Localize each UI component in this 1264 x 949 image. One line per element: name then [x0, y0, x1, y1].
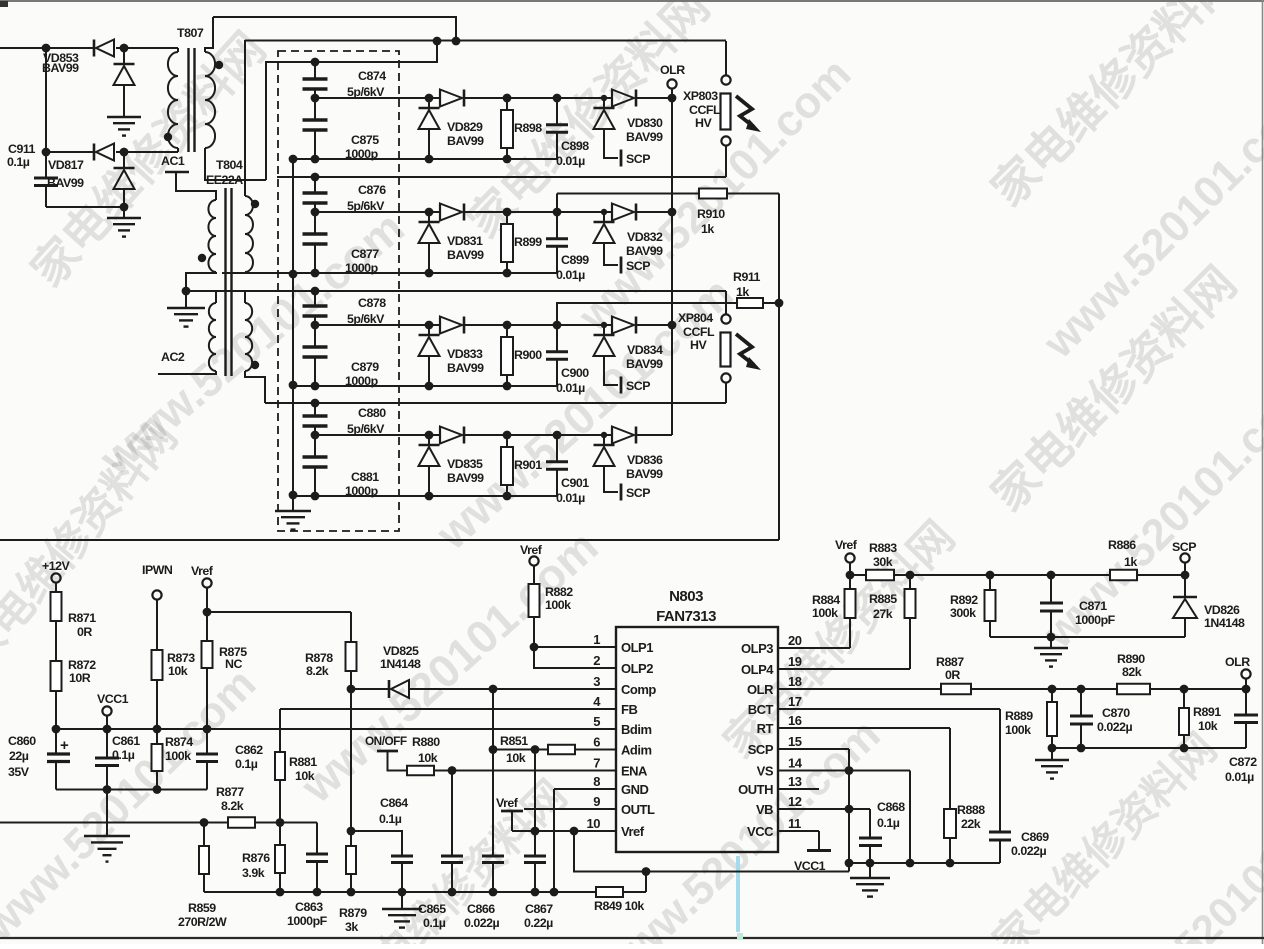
node Vref mid [496, 796, 523, 831]
svg-text:CCFL: CCFL [683, 325, 715, 339]
resistor R885 [905, 571, 916, 669]
node +12V [42, 559, 71, 583]
svg-text:27k: 27k [873, 607, 893, 621]
node SCP channel 3 [626, 379, 650, 393]
svg-text:VD829: VD829 [447, 120, 483, 134]
resistor R872 [51, 661, 62, 729]
svg-text:19: 19 [788, 654, 802, 669]
capacitor C900 [546, 321, 568, 386]
label XP803 CCFL HV [683, 89, 721, 130]
svg-text:C863: C863 [295, 900, 323, 914]
wire decouple rail [845, 859, 1000, 868]
svg-text:VCC1: VCC1 [794, 859, 826, 873]
label VD817 [47, 158, 84, 190]
label R892 [950, 593, 978, 620]
wire channel 3 bottom rail [293, 382, 557, 391]
wire SCP pin drop [778, 749, 853, 775]
svg-text:FAN7313: FAN7313 [656, 608, 716, 625]
diode VD825 [347, 680, 498, 698]
label IC left pins [587, 632, 657, 839]
svg-text:12: 12 [788, 794, 802, 809]
wire section divider [0, 539, 779, 541]
svg-text:BAV99: BAV99 [626, 357, 663, 371]
wire T807 secondary top feed [213, 17, 456, 41]
svg-text:OLP4: OLP4 [741, 662, 774, 677]
svg-text:VD834: VD834 [627, 343, 663, 357]
node input junction [42, 44, 51, 53]
label C879 [345, 360, 379, 388]
connector XP803 [721, 41, 762, 177]
label R885 [869, 592, 897, 621]
wire sense cap ground bus [289, 155, 298, 511]
label C860 [8, 734, 36, 779]
label C865 [418, 902, 446, 930]
svg-text:C867: C867 [525, 902, 553, 916]
svg-text:GND: GND [621, 782, 649, 797]
svg-text:+12V: +12V [42, 559, 71, 573]
ground OLR cluster [1035, 748, 1069, 779]
svg-text:VS: VS [757, 764, 774, 779]
svg-text:C911: C911 [8, 142, 36, 156]
node OLR top [660, 63, 685, 89]
resistor R882 [529, 566, 540, 652]
svg-text:C881: C881 [351, 470, 379, 484]
svg-text:C871: C871 [1079, 599, 1107, 613]
svg-text:8.2k: 8.2k [221, 799, 244, 813]
transformer T804 [158, 40, 265, 403]
capacitor C881 [303, 435, 328, 496]
svg-text:10k: 10k [506, 751, 526, 765]
label R875 [219, 645, 247, 671]
label R880 [412, 735, 440, 765]
wire channel 1 bottom rail [293, 155, 557, 164]
capacitor C898 [546, 94, 568, 159]
diode VD826 [1173, 575, 1197, 637]
wire channel 4 bottom rail [293, 492, 557, 501]
svg-text:0.022µ: 0.022µ [1097, 720, 1133, 734]
capacitor C860 [47, 725, 70, 790]
diode VD830 [594, 90, 637, 167]
wire OUTL stub [524, 808, 616, 810]
resistor R898 [501, 94, 513, 159]
svg-text:6: 6 [593, 735, 600, 750]
svg-text:1N4148: 1N4148 [380, 657, 421, 671]
resistor R901 [501, 431, 513, 496]
wire C874 feed [266, 41, 437, 180]
svg-text:0.01µ: 0.01µ [556, 154, 585, 168]
svg-text:C866: C866 [467, 902, 495, 916]
label R849 [594, 899, 644, 913]
resistor R883 [850, 570, 1110, 581]
svg-text:R900: R900 [514, 348, 542, 362]
label VD830 [626, 116, 663, 144]
label C878 [347, 296, 386, 326]
resistor R873 [152, 650, 163, 733]
svg-text:7: 7 [593, 756, 600, 771]
label C863 [287, 900, 328, 928]
label R898 [514, 121, 542, 135]
capacitor C875 [303, 98, 328, 159]
svg-text:0R: 0R [945, 668, 960, 682]
label C880 [347, 406, 386, 436]
svg-text:VD833: VD833 [447, 347, 483, 361]
wire left column [45, 48, 47, 178]
svg-text:5p/6kV: 5p/6kV [347, 312, 385, 326]
svg-text:C865: C865 [418, 902, 446, 916]
svg-text:OLP3: OLP3 [741, 641, 773, 656]
label C872 [1225, 755, 1257, 784]
svg-text:BCT: BCT [748, 702, 774, 717]
wire OLR sense line [636, 89, 676, 436]
label R874 [165, 735, 193, 763]
label R878 [305, 651, 333, 678]
svg-text:3k: 3k [345, 920, 358, 934]
resistor R884 [845, 575, 856, 648]
svg-text:300k: 300k [950, 606, 976, 620]
label N803 FAN7313 [656, 588, 716, 625]
ground C868 [850, 863, 890, 897]
diode VD853 [94, 40, 178, 118]
label R899 [514, 235, 542, 249]
label VD825 1N4148 [380, 644, 421, 671]
wire GND pin drop [550, 789, 616, 896]
capacitor C872 [1234, 689, 1258, 748]
resistor R880 [407, 766, 456, 776]
svg-text:10k: 10k [295, 769, 315, 783]
resistor R887 [778, 684, 1117, 695]
svg-text:SCP: SCP [626, 486, 650, 500]
label R886 [1108, 538, 1137, 569]
label R900 [514, 348, 542, 362]
resistor R849 [596, 887, 623, 897]
svg-text:18: 18 [788, 674, 802, 689]
wire VS rail [778, 771, 914, 868]
wire bottom ground rail [204, 891, 646, 893]
dashed boundary capacitor bank [278, 51, 399, 531]
wire channel 2 output rail [311, 208, 672, 217]
svg-text:BAV99: BAV99 [626, 467, 663, 481]
node SCP channel 4 [626, 486, 650, 500]
svg-text:R859: R859 [188, 901, 216, 915]
ground main [84, 790, 130, 862]
svg-text:C864: C864 [380, 796, 408, 810]
svg-text:VD826: VD826 [1204, 603, 1240, 617]
svg-text:OLP1: OLP1 [621, 640, 653, 655]
label C881 [345, 470, 379, 498]
svg-text:C900: C900 [561, 366, 589, 380]
svg-text:5p/6kV: 5p/6kV [347, 199, 385, 213]
svg-text:C872: C872 [1229, 755, 1257, 769]
svg-text:R881: R881 [289, 755, 317, 769]
svg-text:XP804: XP804 [678, 311, 713, 325]
svg-text:100k: 100k [165, 749, 191, 763]
diode VD829 [419, 90, 465, 160]
resistor R910 [557, 189, 779, 213]
capacitor C901 [546, 431, 568, 496]
svg-text:OLR: OLR [747, 682, 774, 697]
wire ENA rail [452, 770, 616, 772]
label R882 [545, 585, 573, 612]
svg-text:22µ: 22µ [9, 749, 29, 763]
label R889 [1005, 709, 1033, 737]
svg-text:R882: R882 [545, 585, 573, 599]
label VD832 [626, 230, 663, 258]
label VD836 [626, 453, 663, 481]
resistor R878 [346, 612, 357, 689]
svg-text:16: 16 [788, 713, 802, 728]
capacitor C868 [849, 809, 882, 867]
label C871 [1075, 599, 1116, 627]
svg-text:SCP: SCP [626, 152, 650, 166]
diode VD831 [419, 204, 465, 274]
capacitor C867 [524, 750, 546, 897]
svg-text:R889: R889 [1005, 709, 1033, 723]
svg-text:10k: 10k [1198, 719, 1218, 733]
svg-text:FB: FB [621, 702, 637, 717]
node IPWN [142, 563, 173, 650]
svg-text:15: 15 [788, 734, 802, 749]
capacitor C874 [303, 62, 328, 98]
label R901 [514, 458, 542, 472]
resistor R911 [557, 298, 783, 325]
IC N803 FAN7313 [616, 627, 778, 852]
svg-text:BAV99: BAV99 [447, 248, 484, 262]
svg-text:10R: 10R [69, 671, 91, 685]
wire top page edge [0, 1, 1264, 4]
ground T804 primary [167, 287, 205, 327]
wire right frame [778, 194, 780, 541]
svg-text:10: 10 [587, 816, 601, 831]
label C898 [556, 139, 589, 168]
svg-text:R890: R890 [1117, 652, 1145, 666]
svg-text:270R/2W: 270R/2W [178, 915, 227, 929]
svg-text:BAV99: BAV99 [447, 134, 484, 148]
svg-text:SCP: SCP [626, 259, 650, 273]
svg-text:C875: C875 [351, 133, 379, 147]
label C901 [556, 476, 589, 505]
svg-text:R878: R878 [305, 651, 333, 665]
ground VD817 [107, 207, 141, 237]
svg-text:VD835: VD835 [447, 457, 483, 471]
resistor R900 [501, 321, 513, 386]
label R910 [697, 207, 725, 236]
svg-text:C877: C877 [351, 247, 379, 261]
node Vref left [191, 564, 214, 616]
resistor R871 [51, 583, 62, 662]
svg-text:VCC1: VCC1 [97, 692, 129, 706]
svg-text:R849 10k: R849 10k [594, 899, 644, 913]
svg-text:R885: R885 [869, 592, 897, 606]
svg-text:R886: R886 [1108, 538, 1136, 552]
wire VB under-rail [574, 831, 849, 892]
svg-text:ENA: ENA [621, 764, 648, 779]
svg-text:OLR: OLR [1225, 655, 1250, 669]
svg-text:SCP: SCP [748, 742, 774, 757]
svg-text:Adim: Adim [621, 743, 652, 758]
svg-text:AC2: AC2 [161, 350, 185, 364]
svg-text:R874: R874 [165, 735, 193, 749]
label C861 [112, 734, 140, 762]
svg-text:3.9k: 3.9k [242, 866, 265, 880]
svg-text:R871: R871 [68, 611, 96, 625]
label VD829 [447, 120, 484, 148]
svg-text:Bdim: Bdim [621, 722, 652, 737]
svg-text:35V: 35V [8, 765, 30, 779]
svg-text:VB: VB [756, 802, 773, 817]
label C868 [877, 800, 905, 830]
svg-text:R884: R884 [812, 593, 840, 607]
label R887 [936, 655, 964, 682]
label XP804 CCFL HV [678, 311, 715, 352]
label R891 [1193, 705, 1221, 733]
node VCC1 pin11 [778, 831, 831, 873]
svg-text:HV: HV [695, 116, 712, 130]
svg-text:0.022µ: 0.022µ [1011, 844, 1047, 858]
label C867 [524, 902, 553, 930]
svg-text:R888: R888 [957, 803, 985, 817]
label R872 [68, 658, 96, 685]
svg-text:NC: NC [225, 657, 242, 671]
label C864 [379, 796, 408, 826]
capacitor C869 [989, 832, 1011, 863]
svg-text:VD832: VD832 [627, 230, 663, 244]
svg-text:1k: 1k [701, 222, 714, 236]
capacitor C871 [1040, 571, 1063, 642]
wire Vref pin rail [512, 827, 616, 836]
svg-text:100k: 100k [812, 606, 838, 620]
wire channel 1 output rail [311, 94, 672, 103]
label C874 [347, 69, 386, 99]
svg-text:0.1µ: 0.1µ [112, 748, 135, 762]
wire OLP1 OLP2 stubs [534, 647, 616, 668]
svg-text:BAV99: BAV99 [626, 130, 663, 144]
svg-text:20: 20 [788, 633, 802, 648]
svg-text:5p/6kV: 5p/6kV [347, 422, 385, 436]
label C900 [556, 366, 589, 395]
label R879 [339, 906, 367, 934]
label R851 [500, 734, 528, 765]
svg-text:BAV99: BAV99 [42, 61, 79, 75]
capacitor C877 [303, 212, 328, 273]
svg-text:C880: C880 [358, 406, 386, 420]
svg-text:R879: R879 [339, 906, 367, 920]
node AC1 [161, 154, 189, 172]
label R876 [242, 851, 270, 880]
wire RT to R888 [778, 728, 950, 809]
svg-text:R901: R901 [514, 458, 542, 472]
label IC right pins [738, 633, 803, 839]
marker cyan streak [736, 856, 743, 939]
svg-text:AC1: AC1 [161, 154, 185, 168]
diode VD836 [594, 427, 637, 501]
capacitor C864 [351, 831, 413, 896]
resistor R881 [275, 709, 285, 827]
svg-text:OLR: OLR [660, 63, 685, 77]
svg-text:N803: N803 [669, 588, 703, 605]
label R871 [68, 611, 96, 639]
svg-text:BAV99: BAV99 [447, 361, 484, 375]
svg-text:OUTL: OUTL [621, 802, 655, 817]
svg-text:100k: 100k [545, 598, 571, 612]
label VD834 [626, 343, 663, 371]
resistor R892 [985, 571, 996, 637]
svg-text:RT: RT [757, 721, 774, 736]
svg-text:1k: 1k [1124, 555, 1137, 569]
svg-text:1000pF: 1000pF [1075, 613, 1116, 627]
label VD831 [447, 234, 484, 262]
node ON/OFF [365, 734, 407, 771]
svg-text:Vref: Vref [191, 564, 214, 578]
label VD835 [447, 457, 484, 485]
svg-text:CCFL: CCFL [689, 103, 721, 117]
svg-text:R872: R872 [68, 658, 96, 672]
svg-text:Comp: Comp [621, 682, 656, 697]
wire OLP3 stub [778, 647, 850, 649]
svg-text:0.1µ: 0.1µ [423, 916, 446, 930]
label R883 [869, 541, 897, 569]
node Vref right [835, 538, 858, 579]
diode VD833 [419, 317, 465, 387]
label C866 [464, 902, 500, 930]
svg-text:2: 2 [593, 653, 600, 668]
svg-text:C899: C899 [561, 253, 589, 267]
svg-text:0.1µ: 0.1µ [7, 155, 30, 169]
resistor R890 [1048, 684, 1251, 695]
node SCP terminal [1172, 540, 1196, 575]
svg-text:0.1µ: 0.1µ [379, 812, 402, 826]
label R888 [957, 803, 985, 831]
svg-text:T807: T807 [177, 26, 204, 40]
wire lamp1 return [277, 173, 726, 182]
capacitor C866 [482, 689, 504, 896]
label C876 [347, 183, 386, 213]
wire channel 4 output rail [311, 431, 672, 440]
wire lamp2 top feed [245, 287, 726, 296]
svg-text:OUTH: OUTH [738, 782, 773, 797]
capacitor C878 [303, 291, 328, 325]
svg-text:5p/6kV: 5p/6kV [347, 85, 385, 99]
resistor R899 [501, 208, 513, 273]
svg-text:C869: C869 [1021, 830, 1049, 844]
svg-text:0.01µ: 0.01µ [556, 381, 585, 395]
resistor R877 [228, 817, 317, 828]
label T807 [177, 26, 204, 40]
node VCC1 [97, 692, 129, 729]
svg-text:5: 5 [593, 714, 600, 729]
wire OUTH stub [778, 788, 819, 790]
label C911 [7, 142, 36, 169]
diode VD835 [419, 427, 465, 497]
capacitor C870 [1070, 689, 1093, 752]
svg-text:11: 11 [788, 816, 801, 831]
resistor R851 [548, 745, 616, 755]
svg-text:0.01µ: 0.01µ [556, 491, 585, 505]
svg-text:VD830: VD830 [627, 116, 663, 130]
svg-text:Vref: Vref [835, 538, 858, 552]
svg-text:R910: R910 [697, 207, 725, 221]
resistor R886 [1110, 570, 1189, 581]
wire Comp rail [493, 688, 616, 690]
svg-text:C870: C870 [1102, 706, 1130, 720]
svg-text:10k: 10k [418, 751, 438, 765]
node SCP channel 2 [626, 259, 650, 273]
wire OLR cluster bottom rail [1052, 747, 1246, 749]
label C875 [345, 133, 379, 161]
svg-text:0.1µ: 0.1µ [877, 816, 900, 830]
label C862 [235, 743, 263, 771]
diode VD832 [594, 204, 637, 274]
svg-text:C898: C898 [561, 139, 589, 153]
